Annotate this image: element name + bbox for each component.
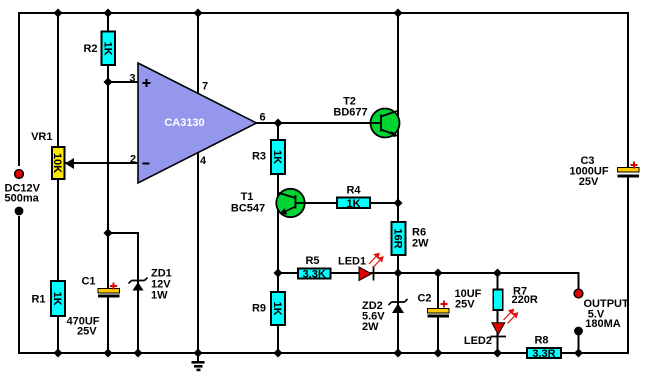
wire output positive stub xyxy=(578,272,580,290)
svg-text:25V: 25V xyxy=(579,176,599,188)
resistor R1 xyxy=(31,281,65,316)
wire pin 7 xyxy=(197,13,199,94)
terminal DC12V negative (black) xyxy=(15,207,24,216)
resistor R9 xyxy=(252,292,285,325)
svg-text:3: 3 xyxy=(129,73,135,85)
wire top rail xyxy=(18,12,629,14)
wire VR1/R1 vertical xyxy=(57,13,59,353)
svg-text:LED2: LED2 xyxy=(464,335,492,347)
resistor R4 xyxy=(337,185,370,210)
svg-text:C1: C1 xyxy=(81,276,95,288)
node pin 3 / R2 xyxy=(104,78,113,87)
zener diode ZD1 xyxy=(129,268,172,302)
svg-text:R3: R3 xyxy=(252,151,266,163)
zener diode ZD2 xyxy=(362,299,408,333)
wire left vertical lower xyxy=(18,216,20,354)
node LED1 / R6 line xyxy=(394,269,403,278)
node top rail / pin 7 xyxy=(194,9,203,18)
LED LED1 xyxy=(338,256,374,281)
terminal DC12V positive (red) xyxy=(5,170,41,205)
node bottom rail / ZD2 xyxy=(394,349,403,358)
capacitor C3 xyxy=(569,155,639,188)
svg-text:10K: 10K xyxy=(51,153,63,173)
svg-text:R2: R2 xyxy=(83,43,97,55)
wire R3/T1/R9 vertical xyxy=(277,123,279,353)
svg-text:LED1: LED1 xyxy=(338,256,366,268)
wire C2 vertical lower xyxy=(437,315,439,353)
svg-text:180MA: 180MA xyxy=(585,318,621,330)
svg-text:1W: 1W xyxy=(151,290,168,302)
svg-text:25V: 25V xyxy=(455,299,475,311)
svg-text:2W: 2W xyxy=(362,321,379,333)
wire ZD1 branch horizontal xyxy=(108,232,139,234)
svg-text:CA3130: CA3130 xyxy=(164,117,204,129)
svg-text:6: 6 xyxy=(260,112,266,124)
wire bottom rail xyxy=(18,352,629,354)
svg-text:BC547: BC547 xyxy=(231,203,265,215)
svg-text:1K: 1K xyxy=(346,198,360,210)
transistor T2 BD677 xyxy=(333,96,399,138)
wire R2/C1 vertical upper xyxy=(107,13,109,290)
svg-text:2W: 2W xyxy=(412,238,429,250)
node bottom rail / LED2 xyxy=(493,349,502,358)
node top rail / R2 line xyxy=(104,9,113,18)
ground xyxy=(192,353,205,370)
node bottom rail / ZD1 xyxy=(134,349,143,358)
svg-text:VR1: VR1 xyxy=(31,131,52,143)
wire pin 4 to ground xyxy=(197,152,199,353)
node R4 / R6 xyxy=(394,199,403,208)
wire LED1/R5 row xyxy=(278,272,579,274)
node pin 6 / R3 xyxy=(274,119,283,128)
svg-text:R9: R9 xyxy=(252,303,266,315)
svg-text:1K: 1K xyxy=(271,150,283,164)
wire right vertical lower (C3 branch) xyxy=(627,177,629,354)
svg-text:4: 4 xyxy=(200,155,207,167)
capacitor C1 xyxy=(67,276,120,338)
wire pin 6 to T2 base xyxy=(256,122,371,124)
node bottom rail / output xyxy=(574,349,583,358)
wire R2/C1 vertical lower xyxy=(107,297,109,353)
resistor R2 xyxy=(83,32,115,66)
svg-text:1K: 1K xyxy=(271,301,283,315)
svg-text:25V: 25V xyxy=(77,326,97,338)
svg-text:R5: R5 xyxy=(305,255,319,267)
resistor R5 xyxy=(298,255,331,281)
svg-text:3.3K: 3.3K xyxy=(303,269,326,281)
wire pin 3 xyxy=(108,81,139,83)
transistor T1 BC547 xyxy=(231,189,305,217)
resistor R3 xyxy=(252,140,285,174)
op-amp minus input mark xyxy=(143,163,150,165)
resistor R8 xyxy=(527,335,561,360)
node top rail / T2 collector xyxy=(394,9,403,18)
op-amp U1 CA3130 xyxy=(138,63,257,183)
wire C2 vertical upper xyxy=(437,273,439,310)
wire right vertical upper (C3 branch) xyxy=(627,12,629,169)
node ZD1 branch / C1 line xyxy=(104,229,113,238)
svg-text:2: 2 xyxy=(130,154,136,166)
wire VR1 wiper to pin 2 xyxy=(65,162,139,164)
svg-text:7: 7 xyxy=(202,81,208,93)
node C2 top xyxy=(434,269,443,278)
svg-text:1K: 1K xyxy=(51,291,63,305)
node R7 top xyxy=(493,269,502,278)
terminal OUTPUT negative (black) xyxy=(574,327,583,336)
svg-text:3.3R: 3.3R xyxy=(532,348,555,360)
wire R7/LED2 vertical xyxy=(497,273,499,353)
node T1 emitter / R5 row xyxy=(274,269,283,278)
wire output negative stub xyxy=(578,334,580,353)
node bottom rail / C2 xyxy=(434,349,443,358)
wire T1 base to R4 to node xyxy=(304,202,398,204)
svg-text:C2: C2 xyxy=(417,293,431,305)
resistor R7 xyxy=(493,286,538,311)
svg-text:500ma: 500ma xyxy=(5,193,40,205)
LED LED2 xyxy=(464,323,506,347)
potentiometer VR1 xyxy=(31,131,74,179)
svg-text:R1: R1 xyxy=(31,294,45,306)
node bottom rail / R9 xyxy=(274,349,283,358)
resistor R6 xyxy=(391,222,429,255)
LED1 light arrows xyxy=(369,254,383,268)
LED2 light arrows xyxy=(504,310,518,324)
capacitor C2 xyxy=(417,288,481,318)
svg-text:220R: 220R xyxy=(512,294,538,306)
node top rail / VR1 line xyxy=(54,9,63,18)
wire left vertical upper xyxy=(18,12,20,166)
svg-text:1K: 1K xyxy=(101,41,113,55)
node bottom rail / ground xyxy=(194,349,203,358)
wire ZD1 branch vertical xyxy=(137,232,139,353)
svg-text:16R: 16R xyxy=(391,228,403,248)
wire T2/R6/ZD2 vertical xyxy=(397,13,399,353)
terminal OUTPUT positive (red) xyxy=(574,289,629,330)
svg-text:T1: T1 xyxy=(241,191,254,203)
svg-text:BD677: BD677 xyxy=(333,107,367,119)
node bottom rail / R1 xyxy=(54,349,63,358)
node bottom rail / C1 xyxy=(104,349,113,358)
svg-text:R8: R8 xyxy=(534,335,548,347)
svg-text:R4: R4 xyxy=(346,185,361,197)
op-amp plus input mark xyxy=(143,79,151,87)
